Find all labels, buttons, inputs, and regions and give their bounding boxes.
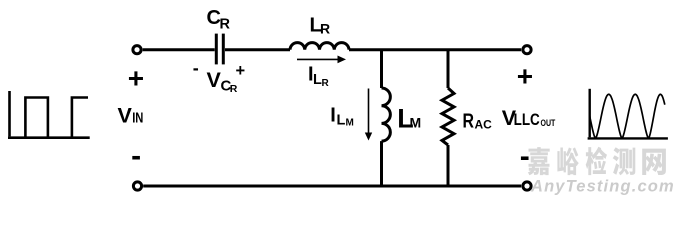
svg-text:-: - bbox=[520, 140, 530, 173]
svg-text:R: R bbox=[320, 21, 330, 37]
svg-text:+: + bbox=[128, 62, 144, 93]
svg-text:IN: IN bbox=[132, 110, 143, 126]
svg-text:AC: AC bbox=[475, 117, 493, 131]
svg-text:V: V bbox=[207, 68, 222, 92]
svg-text:LLC: LLC bbox=[514, 110, 540, 129]
svg-text:R: R bbox=[322, 78, 330, 89]
svg-text:+: + bbox=[236, 62, 246, 80]
svg-text:M: M bbox=[346, 118, 354, 129]
svg-text:M: M bbox=[410, 115, 422, 131]
svg-text:R: R bbox=[230, 83, 238, 95]
svg-text:-: - bbox=[193, 58, 199, 78]
svg-text:L: L bbox=[337, 113, 346, 129]
svg-text:AnyTesting.com: AnyTesting.com bbox=[530, 177, 675, 195]
svg-text:-: - bbox=[131, 140, 141, 173]
svg-text:OUT: OUT bbox=[541, 118, 556, 129]
svg-text:R: R bbox=[463, 111, 475, 133]
svg-text:+: + bbox=[517, 61, 533, 92]
svg-text:R: R bbox=[220, 17, 231, 33]
svg-text:I: I bbox=[330, 105, 336, 127]
svg-text:V: V bbox=[118, 103, 133, 127]
